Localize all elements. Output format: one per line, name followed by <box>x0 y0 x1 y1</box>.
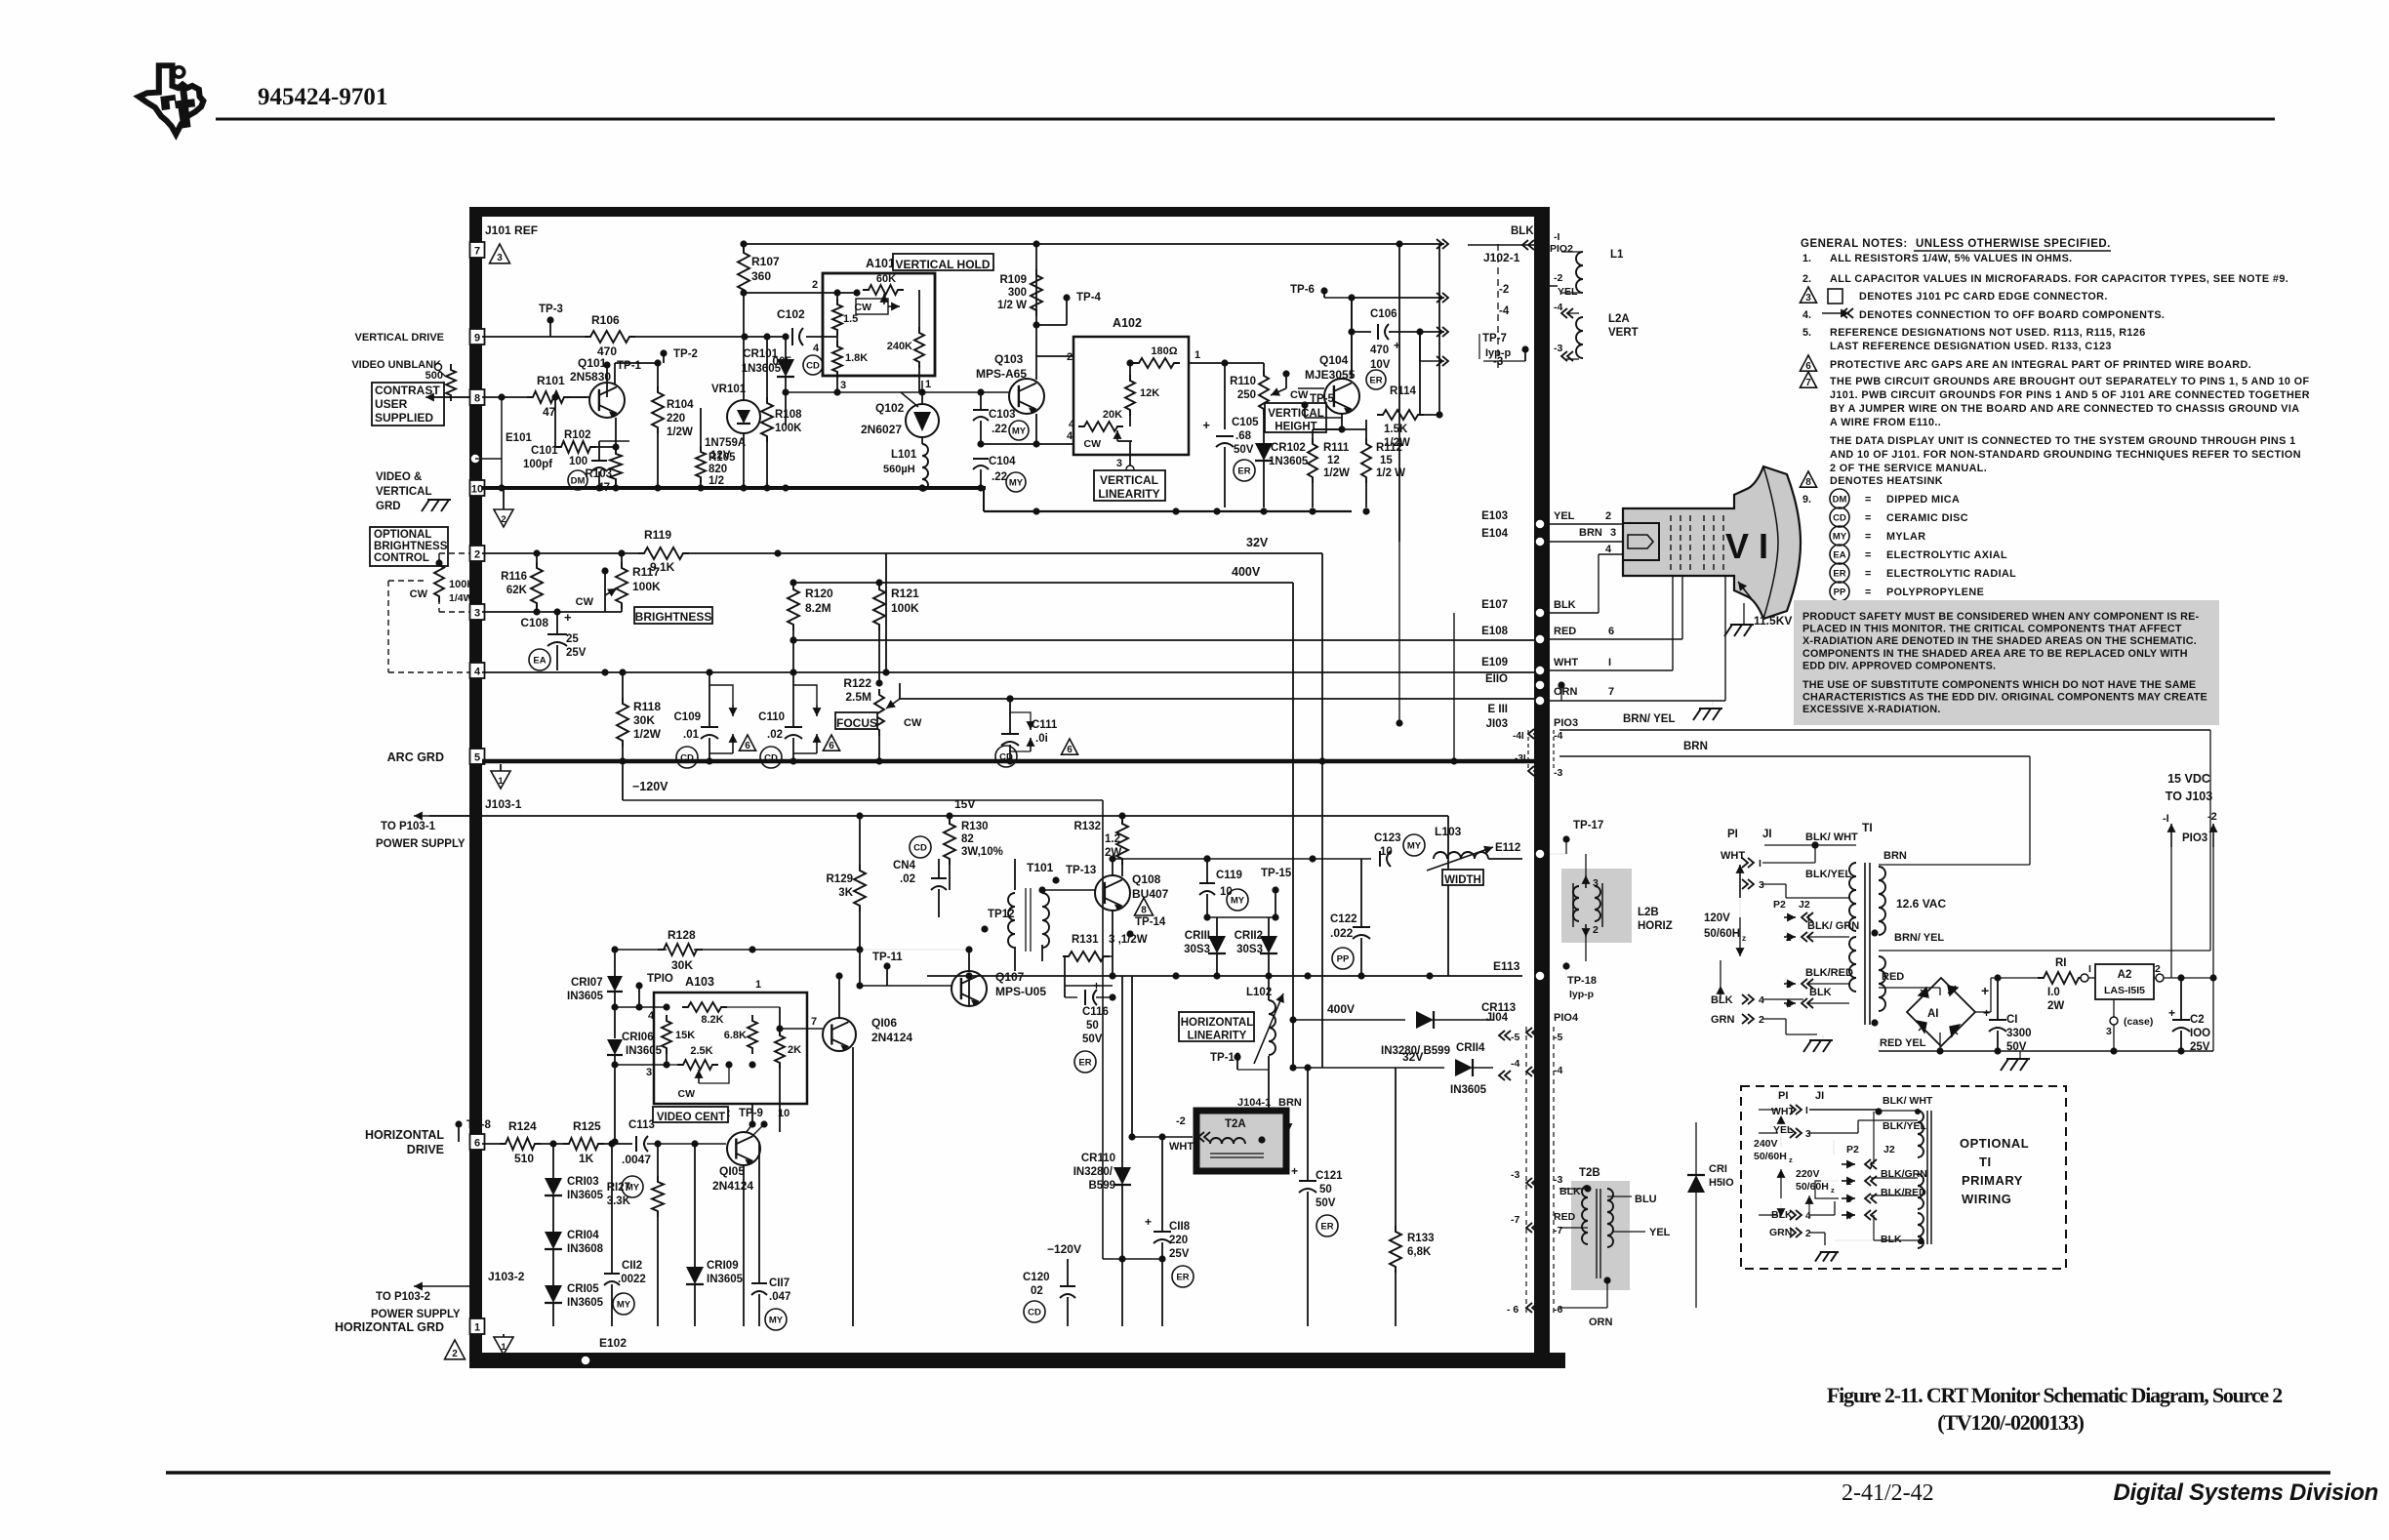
svg-text:5: 5 <box>474 752 480 764</box>
label BLK/YEL <box>1805 869 1851 880</box>
svg-text:240K: 240K <box>887 341 912 352</box>
transistor Q105 2N4124 <box>712 1104 760 1326</box>
svg-text:BRIGHTNESS: BRIGHTNESS <box>635 610 712 624</box>
test point TP12 <box>981 909 1014 933</box>
svg-text:2: 2 <box>452 1349 458 1359</box>
wire -120V long rail <box>1047 1242 1166 1263</box>
svg-text:AND 10 OF J101. FOR NON-STANDA: AND 10 OF J101. FOR NON-STANDARD GROUNDI… <box>1830 449 2301 461</box>
svg-text:+: + <box>1145 1215 1152 1229</box>
svg-text:WHT: WHT <box>1554 657 1578 669</box>
svg-text:VERTICAL HOLD: VERTICAL HOLD <box>895 258 990 271</box>
T1 secondary BRN/YEL <box>1879 773 2210 951</box>
svg-text:C106: C106 <box>1370 308 1397 320</box>
note 3 triangle <box>1800 287 2107 304</box>
svg-text:RED YEL: RED YEL <box>1880 1037 1926 1049</box>
PWB board outline bottom border <box>469 1353 1565 1368</box>
resistor 1.5 in A101 <box>832 289 858 336</box>
svg-text:3: 3 <box>1846 1195 1851 1205</box>
svg-text:2N6027: 2N6027 <box>861 423 902 436</box>
svg-text:ALL CAPACITOR VALUES IN MICROF: ALL CAPACITOR VALUES IN MICROFARADS. FOR… <box>1830 273 2288 285</box>
wire section ground rail A102 <box>984 507 1370 514</box>
svg-text:5.: 5. <box>1802 327 1811 339</box>
svg-text:CW: CW <box>576 596 594 608</box>
svg-text:R132: R132 <box>1074 821 1102 832</box>
svg-text:=: = <box>1865 531 1871 543</box>
CRT electron gun <box>1623 523 1659 560</box>
svg-text:1/2W: 1/2W <box>667 426 693 438</box>
svg-text:IN3605: IN3605 <box>1450 1084 1487 1096</box>
svg-text:A102: A102 <box>1113 316 1142 330</box>
wire main lower rail E113 <box>927 959 1545 981</box>
figure caption line2 <box>1937 1410 2084 1435</box>
svg-text:I: I <box>1870 1160 1873 1171</box>
wire YEL pin -2 <box>1534 272 1578 298</box>
note 7 continued <box>1830 435 2301 474</box>
svg-text:TPIO: TPIO <box>647 973 673 985</box>
svg-text:X-RADIATION ARE DENOTED IN THE: X-RADIATION ARE DENOTED IN THE SHADED AR… <box>1802 635 2197 647</box>
optional T1 dashed box <box>1741 1086 2066 1269</box>
diode CR105 1N3605 <box>545 1283 604 1326</box>
svg-text:R104: R104 <box>667 399 694 411</box>
test point TP-16 <box>1210 1052 1269 1070</box>
resistor R127 3.3K <box>607 1144 664 1326</box>
svg-text:POWER SUPPLY: POWER SUPPLY <box>371 1309 461 1320</box>
svg-text:−120V: −120V <box>1047 1242 1081 1256</box>
svg-text:TO P103-1: TO P103-1 <box>381 821 436 832</box>
svg-text:CERAMIC DISC: CERAMIC DISC <box>1886 512 1968 524</box>
svg-text:R118: R118 <box>633 700 661 713</box>
svg-text:-2: -2 <box>1499 284 1509 296</box>
svg-text:EA: EA <box>533 656 546 667</box>
svg-text:C111: C111 <box>1032 719 1058 731</box>
svg-text:C108: C108 <box>520 616 548 629</box>
svg-text:TP-4: TP-4 <box>1076 292 1102 304</box>
svg-text:3: 3 <box>1116 458 1122 469</box>
svg-text:L1: L1 <box>1610 249 1624 261</box>
svg-text:1K: 1K <box>579 1152 594 1165</box>
svg-text:PIO4: PIO4 <box>1554 1012 1579 1024</box>
svg-text:R101: R101 <box>537 374 565 387</box>
wire horizontal drive rail <box>482 1140 726 1147</box>
svg-text:CRI05: CRI05 <box>567 1283 599 1295</box>
svg-text:MY: MY <box>1009 478 1024 489</box>
test point TP-13 <box>1052 865 1096 884</box>
svg-text:QI06: QI06 <box>871 1016 897 1030</box>
potentiometer R110 250 VERTICAL HEIGHT <box>1230 370 1309 444</box>
svg-text:DRIVE: DRIVE <box>407 1143 444 1156</box>
svg-text:ER: ER <box>1237 466 1250 477</box>
svg-text:BLK/ WHT: BLK/ WHT <box>1805 831 1858 843</box>
svg-text:CR110: CR110 <box>1081 1153 1115 1164</box>
svg-text:COMPONENTS IN THE SHADED AREA: COMPONENTS IN THE SHADED AREA ARE TO BE … <box>1802 648 2188 660</box>
svg-text:-3: -3 <box>1554 343 1562 354</box>
svg-text:PP: PP <box>1834 588 1846 598</box>
wire P103-2 down <box>2212 847 2214 1051</box>
T1 pin1 WHT <box>1721 841 1856 898</box>
inductor L2A VERT <box>1554 313 1639 361</box>
svg-text:TP-18: TP-18 <box>1567 975 1597 987</box>
svg-text:4: 4 <box>648 1010 655 1022</box>
svg-text:2: 2 <box>474 549 480 561</box>
svg-text:.02: .02 <box>900 873 915 885</box>
svg-text:=: = <box>1865 494 1871 506</box>
svg-text:-2: -2 <box>1554 272 1562 284</box>
capacitor C117 .047 MY <box>751 1142 790 1330</box>
svg-text:CD: CD <box>1028 1308 1041 1318</box>
svg-text:ELECTROLYTIC AXIAL: ELECTROLYTIC AXIAL <box>1886 549 2007 561</box>
svg-text:BLK: BLK <box>1511 225 1534 237</box>
svg-text:EXCESSIVE X-RADIATION.: EXCESSIVE X-RADIATION. <box>1802 704 1941 715</box>
svg-text:3: 3 <box>646 1067 652 1078</box>
svg-text:.01: .01 <box>683 729 700 741</box>
footer division <box>2113 1479 2378 1506</box>
svg-text:+: + <box>2168 1006 2175 1020</box>
svg-text:CONTROL: CONTROL <box>374 552 429 564</box>
connector J101 pin 10 <box>470 480 485 496</box>
svg-text:TP-17: TP-17 <box>1573 820 1603 831</box>
svg-text:I.0: I.0 <box>2047 987 2060 998</box>
svg-text:2: 2 <box>1067 351 1073 363</box>
svg-text:Q104: Q104 <box>1319 353 1349 367</box>
svg-text:02: 02 <box>1031 1285 1043 1297</box>
svg-text:CII8: CII8 <box>1169 1221 1191 1233</box>
svg-text:2: 2 <box>1759 1014 1764 1026</box>
svg-text:50/60H: 50/60H <box>1796 1181 1829 1193</box>
inductor L2B HORIZ shaded <box>1561 854 1673 961</box>
svg-text:CRI09: CRI09 <box>707 1260 739 1272</box>
svg-text:DENOTES CONNECTION TO OFF BOAR: DENOTES CONNECTION TO OFF BOARD COMPONEN… <box>1859 309 2165 321</box>
wire E108 RED rail <box>790 636 1534 643</box>
svg-text:+: + <box>1394 339 1400 352</box>
diode CR113 1N3280/B599 <box>1381 1002 1516 1057</box>
test point TP-5 <box>1301 393 1342 418</box>
svg-text:BLK: BLK <box>1881 1234 1902 1245</box>
wire E110 <box>1485 673 1565 701</box>
svg-text:H5IO: H5IO <box>1709 1177 1734 1189</box>
svg-text:100K: 100K <box>632 580 661 593</box>
connector J101 pin 7 <box>470 242 485 258</box>
svg-text:ER: ER <box>1176 1273 1189 1283</box>
label VERTICAL HEIGHT box <box>1265 403 1326 433</box>
svg-text:8: 8 <box>1805 477 1811 488</box>
svg-text:L2A: L2A <box>1608 313 1630 325</box>
svg-text:TP-13: TP-13 <box>1066 865 1096 876</box>
svg-text:Iyp-p: Iyp-p <box>1485 347 1512 359</box>
resistor 1.8K in A101 <box>823 330 868 378</box>
svg-text:C101: C101 <box>531 445 558 457</box>
svg-text:ER: ER <box>1369 376 1382 386</box>
svg-text:IN3608: IN3608 <box>567 1243 604 1255</box>
svg-text:RED: RED <box>1554 1211 1576 1223</box>
svg-text:RED: RED <box>1554 626 1576 637</box>
svg-text:J103-1: J103-1 <box>485 797 522 811</box>
label HORIZONTAL GRD <box>335 1320 444 1334</box>
svg-text:.022: .022 <box>1330 926 1354 940</box>
svg-text:400V: 400V <box>1327 1002 1355 1016</box>
svg-text:THE DATA DISPLAY UNIT IS CONNE: THE DATA DISPLAY UNIT IS CONNECTED TO TH… <box>1830 435 2296 447</box>
ground under ORN wire <box>1693 701 1722 720</box>
label BLK/RED <box>1784 967 1853 991</box>
svg-text:C113: C113 <box>628 1119 655 1131</box>
svg-text:12.6 VAC: 12.6 VAC <box>1896 897 1946 911</box>
svg-text:510: 510 <box>514 1152 534 1165</box>
svg-text:400V: 400V <box>1232 565 1261 579</box>
svg-text:.0022: .0022 <box>618 1274 646 1285</box>
svg-text:1/2: 1/2 <box>709 475 724 487</box>
svg-text:ELECTROLYTIC RADIAL: ELECTROLYTIC RADIAL <box>1886 568 2016 580</box>
svg-text:z: z <box>1831 1186 1835 1195</box>
dashed wires optional brightness to pins 2,3,4 <box>388 553 469 672</box>
connector J104-1 BRN to T2A <box>1210 1097 1302 1132</box>
svg-text:MY: MY <box>1833 532 1847 543</box>
capacitor C122 .022 PP <box>1330 859 1370 976</box>
wire E103 to CRT <box>1550 523 1623 525</box>
svg-text:LAST REFERENCE DESIGNATION USE: LAST REFERENCE DESIGNATION USED. R133, C… <box>1830 341 2112 352</box>
svg-text:CD: CD <box>806 361 820 372</box>
svg-text:C2: C2 <box>2190 1014 2205 1026</box>
svg-text:PLACED IN THIS MONITOR. THE C: PLACED IN THIS MONITOR. THE CRITICAL COM… <box>1802 624 2182 635</box>
wire E110 ORN rail <box>900 695 1534 702</box>
label BLK/GRN <box>1784 920 1859 944</box>
wire J102 dashed card edge <box>1483 244 1520 371</box>
resistor 12K in A102 <box>1125 359 1159 416</box>
svg-text:1.8K: 1.8K <box>845 352 868 364</box>
svg-text:ER: ER <box>1833 569 1845 580</box>
wire Q103 collector <box>1033 240 1039 380</box>
footer page number <box>1842 1480 1934 1506</box>
svg-text:-7: -7 <box>1554 1225 1562 1236</box>
wire A102 pin1 to C105 <box>1189 359 1264 429</box>
test point TP-11 <box>860 952 952 986</box>
svg-text:CHARACTERISTICS AS THE EDD DIV: CHARACTERISTICS AS THE EDD DIV. ORIGINAL… <box>1802 692 2207 704</box>
svg-text:15K: 15K <box>675 1030 695 1041</box>
svg-text:CD: CD <box>913 843 927 854</box>
svg-text:3: 3 <box>497 253 503 263</box>
svg-text:7: 7 <box>474 246 480 258</box>
svg-text:CR102: CR102 <box>1271 442 1306 454</box>
svg-text:220V: 220V <box>1796 1168 1820 1180</box>
wire pin3 rail <box>482 608 622 615</box>
svg-text:WIRING: WIRING <box>1962 1192 2011 1206</box>
diode CR107 1N3605 <box>567 976 623 1007</box>
svg-text:TP-1: TP-1 <box>617 360 642 372</box>
capacitor C102 .005 CD <box>769 307 823 375</box>
optional ground <box>1815 1252 1839 1262</box>
test point TP-7 typ-p <box>1479 333 1529 361</box>
svg-text:2N4124: 2N4124 <box>712 1179 753 1193</box>
svg-text:IN3605: IN3605 <box>707 1274 744 1285</box>
svg-text:300: 300 <box>1008 287 1027 299</box>
svg-text:HORIZONTAL: HORIZONTAL <box>365 1128 444 1142</box>
svg-text:CW: CW <box>855 302 872 313</box>
svg-text:MJE3055: MJE3055 <box>1305 368 1356 382</box>
svg-text:BLK: BLK <box>1554 599 1576 611</box>
svg-text:+: + <box>1981 983 1989 998</box>
svg-text:1/4W: 1/4W <box>449 592 473 604</box>
svg-text:IOO: IOO <box>2190 1028 2210 1039</box>
resistor R112 15 1/2W <box>1361 420 1405 507</box>
svg-text:TO J103: TO J103 <box>2166 790 2212 803</box>
svg-text:Q108: Q108 <box>1132 872 1161 886</box>
svg-text:1: 1 <box>1194 349 1200 361</box>
wire R128 node rail <box>611 877 863 977</box>
resistor R111 12 1/2W <box>1308 429 1350 507</box>
T1 pin4 BLK <box>1784 987 1849 1010</box>
svg-text:4: 4 <box>1759 994 1764 1006</box>
svg-text:C119: C119 <box>1216 870 1242 881</box>
svg-text:2K: 2K <box>788 1044 801 1056</box>
svg-text:2: 2 <box>1786 933 1792 944</box>
optional 220V label <box>1796 1168 1835 1195</box>
wire -4 pin to L2A <box>1554 302 1579 318</box>
svg-text:=: = <box>1865 587 1871 598</box>
resistor R130 82 3W <box>944 816 1003 890</box>
svg-text:R102: R102 <box>564 429 591 441</box>
svg-text:2: 2 <box>812 279 818 291</box>
test point TP-14 <box>1126 916 1166 938</box>
connector J101 pin 5 <box>470 749 485 764</box>
test point TP-1 <box>603 360 641 397</box>
label BLK/WHT <box>1805 831 1858 849</box>
svg-text:L103: L103 <box>1435 825 1462 838</box>
resistor 6.8K in A103 <box>724 1015 757 1069</box>
connector J101 pin 4 <box>470 663 485 678</box>
optional BLK bottom <box>1835 1234 1923 1245</box>
diode CR101 1N3605 <box>742 337 794 426</box>
svg-text:(case): (case) <box>2124 1016 2153 1028</box>
wire arc grd thick rail <box>482 757 1534 764</box>
svg-text:IN3605: IN3605 <box>567 1190 604 1201</box>
footer rule <box>166 1471 2330 1475</box>
svg-text:2: 2 <box>1846 1177 1851 1188</box>
svg-text:J102-1: J102-1 <box>1483 251 1520 264</box>
diode CR112 30S3 <box>1235 917 1277 976</box>
svg-text:C120: C120 <box>1023 1272 1050 1283</box>
svg-text:1N3605: 1N3605 <box>742 363 782 375</box>
optional BLK pin4 <box>1759 1201 1835 1222</box>
svg-text:z: z <box>1789 1155 1793 1164</box>
svg-text:QI05: QI05 <box>719 1164 745 1178</box>
svg-text:THE USE OF SUBSTITUTE COMPONEN: THE USE OF SUBSTITUTE COMPONENTS WHICH D… <box>1802 679 2196 691</box>
optional WHT pin1 <box>1759 1105 1883 1147</box>
svg-text:MY: MY <box>769 1316 784 1326</box>
svg-text:3300: 3300 <box>2006 1028 2032 1039</box>
resistor R124 510 <box>500 1119 541 1165</box>
wire thick ground rail pin10 <box>482 484 986 511</box>
svg-text:4: 4 <box>1805 1211 1811 1222</box>
resistor R129 3K <box>827 812 867 989</box>
wire A103 pin7 to Q106 <box>780 1016 823 1029</box>
varistor VR101 1N759A 12V <box>705 337 760 488</box>
potentiometer 60K in A101 <box>855 273 905 314</box>
wire -120V label segment <box>623 761 1103 1259</box>
A101 pin 2 wire <box>745 279 898 297</box>
resistor R131 3 1/2W <box>1063 934 1148 986</box>
svg-text:E107: E107 <box>1481 599 1508 611</box>
wire -2 rail to J102 <box>1348 293 1448 303</box>
potentiometer contrast 500 <box>425 364 456 402</box>
label P1 J1 <box>1727 829 1772 840</box>
svg-text:R128: R128 <box>668 928 696 942</box>
svg-text:TP-9: TP-9 <box>739 1108 763 1119</box>
transistor Q104 MJE3055 <box>1298 353 1366 433</box>
svg-text:MY: MY <box>1231 896 1245 907</box>
wire vertical drive rail pin9 <box>482 333 823 340</box>
capacitor C116 50 50V ER <box>1065 979 1116 1073</box>
svg-text:3W,10%: 3W,10% <box>961 846 1003 858</box>
svg-text:.047: .047 <box>769 1291 790 1303</box>
svg-text:OPTIONAL: OPTIONAL <box>374 529 431 541</box>
svg-text:4: 4 <box>1069 419 1075 430</box>
transistor Q108 BU407 <box>1042 855 1169 976</box>
svg-text:-5: -5 <box>1554 1032 1562 1043</box>
potentiometer 20K in A102 <box>1069 409 1132 450</box>
svg-text:30K: 30K <box>671 958 693 972</box>
svg-text:-4: -4 <box>1554 302 1562 313</box>
svg-text:R124: R124 <box>508 1119 537 1133</box>
ground triangle below pin 1 <box>494 1334 513 1355</box>
svg-text:2: 2 <box>1593 924 1599 936</box>
svg-text:3: 3 <box>2106 1026 2112 1037</box>
svg-text:1/2 W: 1/2 W <box>997 300 1027 311</box>
wire video rail pin8 <box>482 393 587 400</box>
svg-text:C116: C116 <box>1082 1006 1109 1018</box>
svg-text:1.: 1. <box>1802 253 1811 264</box>
svg-text:32V: 32V <box>1402 1050 1423 1064</box>
svg-text:-3I: -3I <box>1515 753 1526 764</box>
svg-text:- 6: - 6 <box>1507 1304 1518 1316</box>
svg-text:6: 6 <box>1067 745 1073 755</box>
svg-text:BRN/ YEL: BRN/ YEL <box>1623 713 1675 725</box>
svg-text:BLU: BLU <box>1635 1194 1657 1205</box>
test point TP-4 <box>1033 292 1101 329</box>
wire CR111 CR112 top rail <box>1203 913 1278 920</box>
svg-text:R125: R125 <box>573 1119 601 1133</box>
svg-text:ER: ER <box>1320 1222 1333 1233</box>
label P2 J2 <box>1773 899 1810 911</box>
svg-text:C123: C123 <box>1374 832 1401 844</box>
svg-text:R129: R129 <box>827 873 854 885</box>
svg-text:6.8K: 6.8K <box>724 1030 747 1041</box>
label BRIGHTNESS box <box>634 607 712 624</box>
svg-text:R133: R133 <box>1407 1233 1435 1244</box>
diode CR1 H510 <box>1687 1122 1734 1308</box>
svg-text:RI: RI <box>2055 957 2067 969</box>
svg-text:J2: J2 <box>1883 1144 1895 1155</box>
svg-text:E109: E109 <box>1481 657 1508 669</box>
op-amp module A102 box <box>1073 316 1189 455</box>
svg-text:J104-1: J104-1 <box>1237 1097 1271 1109</box>
svg-text:PRODUCT SAFETY MUST BE CONSIDE: PRODUCT SAFETY MUST BE CONSIDERED WHEN A… <box>1802 611 2200 623</box>
svg-text:PIO3: PIO3 <box>2182 832 2207 844</box>
connector P103 arrows <box>2163 811 2218 847</box>
wire -2 WHT to T2A <box>1128 976 1210 1153</box>
svg-text:100: 100 <box>569 456 587 467</box>
svg-text:.22: .22 <box>992 471 1007 483</box>
svg-text:11.5KV: 11.5KV <box>1754 614 1792 628</box>
capacitor C109 .01 CD arc gap <box>674 672 756 768</box>
svg-text:TI: TI <box>1979 1155 1992 1169</box>
svg-text:CR101: CR101 <box>743 348 778 360</box>
wire 32V lower rail <box>1289 1020 1444 1072</box>
svg-text:R106: R106 <box>591 313 620 327</box>
capacitor C1 3300 50V <box>1983 978 2032 1053</box>
junction E113 on bar <box>1562 961 1597 1000</box>
svg-text:4.: 4. <box>1802 309 1811 321</box>
note 2. <box>1802 273 2288 285</box>
svg-text:1.5K: 1.5K <box>1384 424 1408 435</box>
svg-text:100pf: 100pf <box>523 459 552 470</box>
